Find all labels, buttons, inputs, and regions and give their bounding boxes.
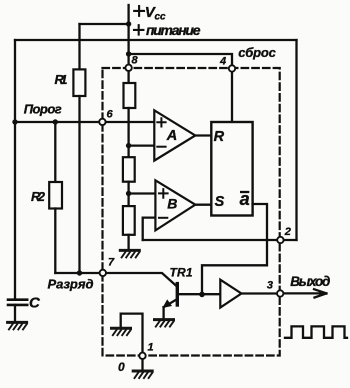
svg-text:B: B bbox=[167, 195, 177, 211]
op-amp U2 (output buffer) bbox=[220, 280, 241, 308]
pin 1 bbox=[139, 353, 145, 359]
wire: Q-bar output path to base/buffer bbox=[202, 204, 267, 294]
svg-text:S: S bbox=[215, 194, 225, 210]
wire: output arrow bbox=[284, 289, 327, 297]
voltage divider resistor 2 bbox=[127, 146, 129, 158]
signal: square wave bbox=[285, 326, 347, 337]
resistor R1 bbox=[78, 24, 80, 69]
svg-text:Выход: Выход bbox=[290, 274, 330, 289]
svg-text:A: A bbox=[166, 128, 177, 144]
wire: to A inverting input bbox=[129, 144, 155, 146]
node: base/buffer junction bbox=[199, 292, 205, 298]
svg-text:0: 0 bbox=[118, 360, 125, 374]
wire: buffer output to pin 3 bbox=[241, 292, 277, 294]
svg-text:1: 1 bbox=[148, 342, 154, 354]
node: divider node to comparator B non-inverting bbox=[126, 191, 131, 196]
plus sign of +питание bbox=[134, 25, 143, 34]
voltage divider resistor 1 bbox=[127, 71, 129, 83]
svg-text:R1: R1 bbox=[55, 72, 68, 87]
ground: internal bbox=[112, 328, 131, 335]
svg-text:cc: cc bbox=[155, 12, 167, 23]
node: junction at Vcc line y=24 bbox=[126, 21, 131, 26]
wire: internal ground U-wire from pin 1 bbox=[121, 314, 143, 353]
IC dashed box bbox=[103, 68, 280, 356]
node: R2 top junction bbox=[53, 119, 58, 124]
svg-text:питание: питание bbox=[146, 22, 201, 38]
pin 2 bbox=[277, 237, 283, 243]
wire: B output to S input bbox=[195, 204, 211, 206]
resistor R2 bbox=[54, 122, 56, 182]
wire: reset wire from Vcc line to pin 4 bbox=[129, 54, 232, 65]
svg-text:R2: R2 bbox=[31, 189, 46, 204]
wire: pin 4 down to flip-flop top bbox=[231, 72, 233, 122]
svg-text:сброс: сброс bbox=[238, 45, 276, 60]
wire: left vertical from top wire to capacitor bbox=[14, 40, 16, 299]
wire: A output to R input bbox=[195, 134, 211, 136]
svg-text:Разряд: Разряд bbox=[48, 276, 94, 291]
svg-text:7: 7 bbox=[108, 257, 115, 269]
capacitor C bbox=[8, 298, 27, 301]
svg-text:6: 6 bbox=[107, 109, 114, 121]
svg-text:3: 3 bbox=[267, 280, 273, 292]
wire: threshold horizontal through pin 6 to comparator A bbox=[15, 121, 154, 123]
plus sign of +Vcc bbox=[134, 6, 144, 16]
svg-text:2: 2 bbox=[284, 226, 291, 238]
voltage divider resistor 3 bbox=[123, 206, 135, 235]
wire: discharge wire to pin 7 and transistor collector bbox=[55, 273, 177, 287]
pin 7 bbox=[100, 270, 106, 276]
wire: right vertical down to pin 2 wire bbox=[295, 40, 297, 240]
op-amp A (comparator) bbox=[154, 110, 195, 160]
wire: R1 top to Vcc line bbox=[80, 23, 129, 25]
svg-text:8: 8 bbox=[132, 55, 139, 67]
ground: TR1 emitter bbox=[155, 320, 174, 327]
svg-text:Порог: Порог bbox=[24, 102, 62, 117]
node: threshold/left junction bbox=[12, 119, 17, 124]
wire: pin 1 to external ground bbox=[141, 359, 143, 370]
ground: divider bottom bbox=[120, 250, 139, 257]
wire: TR1 base wire to buffer input bbox=[179, 293, 221, 295]
wire: trigger up to comparator B inverting input bbox=[143, 218, 156, 240]
pin 4 bbox=[229, 65, 235, 71]
svg-text:C: C bbox=[29, 294, 41, 311]
op-amp B (comparator) bbox=[155, 180, 195, 230]
power +Vcc vertical stub bbox=[127, 5, 129, 65]
pin 6 bbox=[99, 119, 105, 125]
wire: top horizontal (threshold/trigger net) bbox=[15, 39, 297, 41]
node: divider node to comparator A inverting bbox=[126, 143, 131, 148]
pin 3 bbox=[277, 290, 283, 296]
node: junction at Vcc line y=54 bbox=[126, 51, 131, 56]
svg-text:R: R bbox=[214, 129, 225, 145]
node: R1 bottom junction on discharge wire bbox=[77, 270, 82, 275]
flip-flop U1 (RS latch) bbox=[211, 122, 252, 216]
transistor TR1 bbox=[176, 284, 179, 305]
pin 8 bbox=[125, 65, 131, 71]
svg-text:4: 4 bbox=[219, 56, 226, 68]
wire: to B non-inverting input bbox=[129, 192, 156, 194]
ground: pin 1 external bbox=[133, 371, 152, 378]
wire: trigger wire y=240 to pin 2 bbox=[143, 239, 297, 241]
svg-text:TR1: TR1 bbox=[170, 266, 193, 280]
